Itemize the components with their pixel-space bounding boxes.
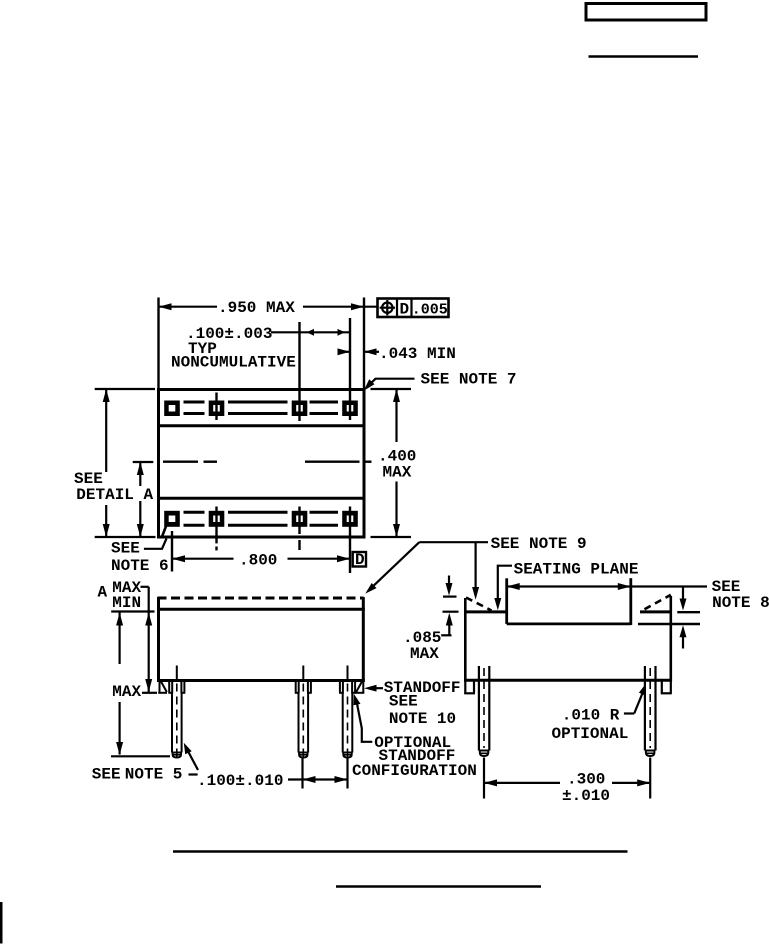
svg-text:MIN: MIN <box>112 594 141 612</box>
svg-text:.300: .300 <box>567 771 605 789</box>
dimension line body-to-standoff <box>142 587 157 693</box>
body top extension line <box>111 610 154 612</box>
note 9 label and leaders <box>365 535 586 600</box>
seating plane surface left <box>464 610 507 613</box>
package body outline (top view) <box>159 390 365 538</box>
dimension .085 MAX <box>403 576 459 663</box>
svg-text:DETAIL A: DETAIL A <box>76 486 153 504</box>
pin 5 extension line <box>171 531 173 572</box>
detail A inner dimension line <box>137 462 144 537</box>
body inner line upper <box>159 424 365 427</box>
body right edge <box>669 596 672 682</box>
note 6 label and leader <box>111 539 169 575</box>
svg-text:.005: .005 <box>412 302 448 319</box>
pin 2 pad (top row) <box>209 401 225 417</box>
hidden lead lines bottom row <box>184 512 339 525</box>
svg-text:.043 MIN: .043 MIN <box>379 345 456 363</box>
lead tip extension line <box>111 755 170 757</box>
dimension .400 MAX <box>378 389 416 537</box>
see detail A top extension line <box>95 388 155 390</box>
right corner standoff <box>356 681 365 693</box>
svg-text:OPTIONAL: OPTIONAL <box>552 725 629 743</box>
see detail A bottom extension line <box>95 536 156 538</box>
svg-text:SEE NOTE 7: SEE NOTE 7 <box>421 371 517 389</box>
svg-text:SEE: SEE <box>389 693 418 711</box>
optional standoff label and leader <box>352 694 477 780</box>
lid max height dashed line <box>158 597 364 600</box>
feature control frame pos D .005 <box>378 299 449 319</box>
optional chamfer right (dashed) <box>645 595 671 610</box>
body left edge <box>157 597 160 682</box>
dimension .800 <box>172 552 350 570</box>
svg-text:SEE: SEE <box>111 540 140 558</box>
note 8 dimension <box>638 588 700 649</box>
body left edge <box>464 598 467 682</box>
.010 R optional label and leader <box>552 684 647 743</box>
pin 4 extension line <box>349 318 351 420</box>
left margin mark <box>0 902 3 944</box>
lead C with standoff collar <box>339 681 356 761</box>
footer rule long <box>173 850 628 853</box>
seating plane surface right <box>640 610 672 613</box>
svg-text:.800: .800 <box>239 552 277 570</box>
pin 6 pad (bottom row) <box>209 511 225 527</box>
optional chamfer left (dashed) <box>466 598 492 611</box>
svg-text:±.010: ±.010 <box>562 787 610 805</box>
.950 MAX right extension line <box>363 298 365 389</box>
pin 4 pad (top row) <box>342 401 358 417</box>
body inner line lower <box>159 497 365 500</box>
body top line <box>157 608 365 611</box>
horizontal centerline (dash-dot) <box>163 461 372 463</box>
pin 1 pad (top row) <box>164 401 180 417</box>
A MAX leader <box>141 586 149 588</box>
detail A outer dimension line <box>103 389 110 537</box>
svg-text:CONFIGURATION: CONFIGURATION <box>352 762 477 780</box>
see detail A mid extension line <box>133 461 154 463</box>
dimension .100 ±.010 <box>197 757 348 790</box>
pin 3 pad (top row) <box>292 401 308 417</box>
datum D box <box>353 551 366 569</box>
svg-text:D: D <box>400 301 410 319</box>
lead B with standoff collar <box>295 681 312 761</box>
note 7 leader <box>364 371 517 391</box>
svg-text:D: D <box>355 551 365 569</box>
body right edge <box>362 597 365 682</box>
title block rectangle (empty) <box>586 4 706 21</box>
svg-text:SEATING PLANE: SEATING PLANE <box>514 561 639 579</box>
left corner standoff <box>158 681 167 693</box>
svg-text:NOTE 8: NOTE 8 <box>712 594 769 612</box>
seating plane label and leader <box>494 561 638 611</box>
end lead right <box>645 666 656 799</box>
footer rule short <box>336 885 541 888</box>
right corner standoff <box>661 680 672 693</box>
svg-text:MAX: MAX <box>112 683 141 701</box>
svg-text:SEE NOTE 9: SEE NOTE 9 <box>491 535 587 553</box>
svg-text:NOTE 5: NOTE 5 <box>125 766 183 784</box>
standoff label and leader <box>364 679 461 728</box>
dimension .300 ±.010 <box>484 771 650 806</box>
dimension line body-to-lead-tip MAX <box>112 613 141 756</box>
pin 7 centerline with dash <box>298 507 300 535</box>
left corner standoff <box>464 680 475 693</box>
svg-text:MAX: MAX <box>383 463 412 481</box>
pin 7 pad (bottom row) <box>292 511 308 527</box>
dimension .950 MAX <box>159 299 378 317</box>
pin 8 extension line to datum <box>349 507 351 574</box>
body bottom line <box>464 679 672 682</box>
lead A with standoff collar <box>168 681 185 761</box>
note 5 label and leader <box>92 743 198 784</box>
svg-text:SEE: SEE <box>92 766 121 784</box>
svg-text:A: A <box>98 584 108 602</box>
header underline <box>589 55 699 58</box>
svg-text:.010 R: .010 R <box>562 707 620 725</box>
dimension .043 MIN <box>338 345 456 363</box>
pin 6 centerline with dashes <box>215 507 217 544</box>
.950 MAX left extension line <box>157 298 159 389</box>
svg-text:NOTE 10: NOTE 10 <box>389 710 456 728</box>
svg-text:.100±.010: .100±.010 <box>197 772 283 790</box>
svg-text:MAX: MAX <box>410 645 439 663</box>
end lead left <box>479 666 489 799</box>
.400 MAX bottom extension line <box>371 536 412 538</box>
pin 3 extension line <box>298 322 300 421</box>
pin 8 pad (bottom row) <box>342 511 358 527</box>
.400 MAX top extension line <box>371 388 412 390</box>
pin 5 pad (bottom row) <box>164 511 180 527</box>
hidden lead lines top row <box>184 402 339 414</box>
body bottom line <box>157 679 365 682</box>
lid outline <box>507 578 631 625</box>
pin 5 index corner mark <box>162 526 167 539</box>
svg-text:NONCUMULATIVE: NONCUMULATIVE <box>171 354 296 372</box>
pin 2 centerline <box>215 393 217 421</box>
svg-text:NOTE 6: NOTE 6 <box>111 557 169 575</box>
pin hidden centerlines inside body <box>176 666 178 681</box>
lid width dimension line <box>507 583 707 590</box>
dimension .100 ±.003 <box>186 325 350 343</box>
svg-text:.950 MAX: .950 MAX <box>218 299 295 317</box>
